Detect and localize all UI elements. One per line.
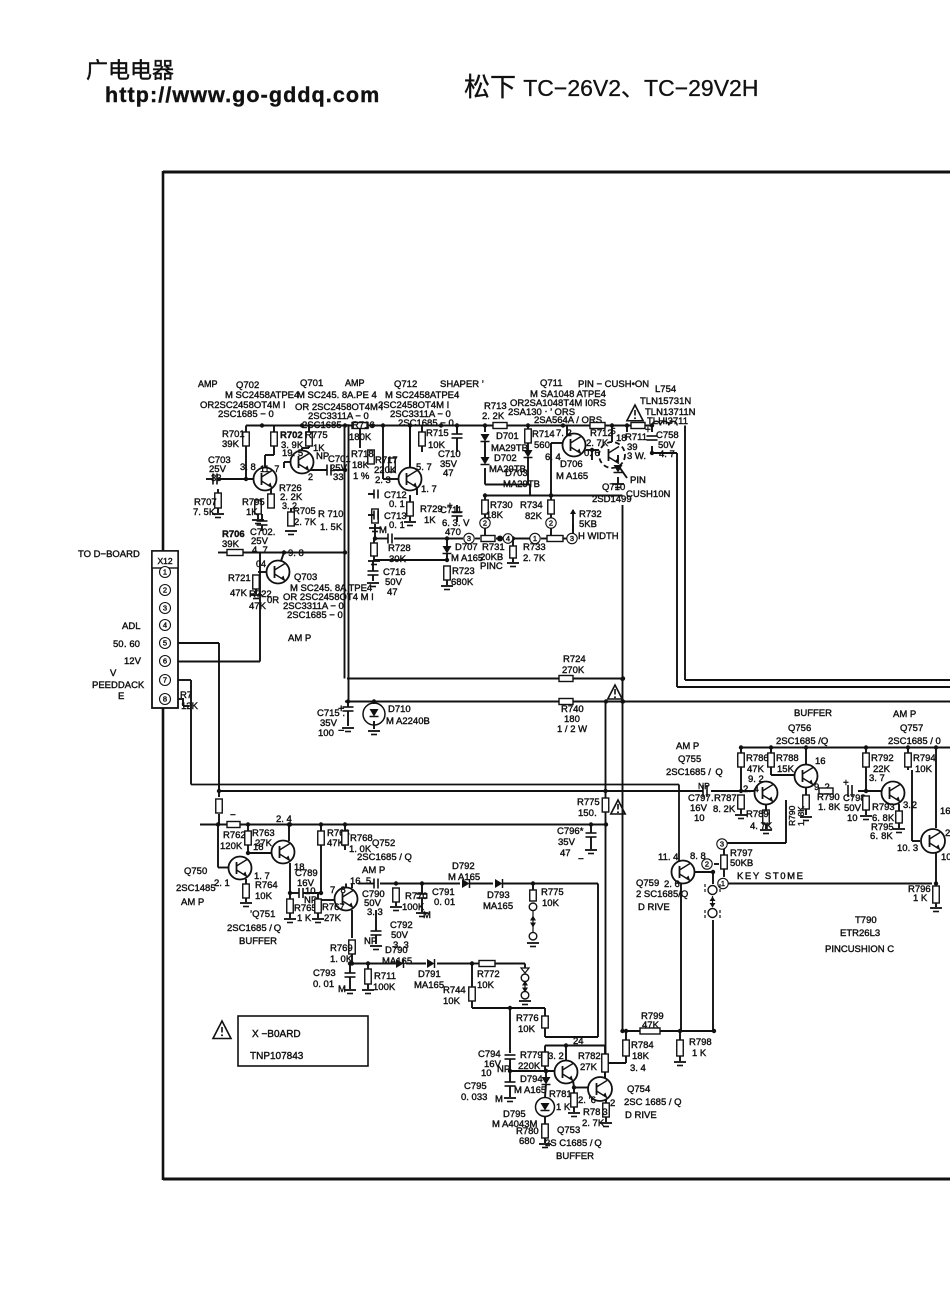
label R712 <box>586 423 613 450</box>
transistor Q756 <box>795 765 818 788</box>
svg-text:11. 7: 11. 7 <box>260 464 279 474</box>
label Q702 types <box>200 390 299 420</box>
resistor R795a <box>242 497 265 524</box>
svg-text:39K: 39K <box>222 539 240 550</box>
label 50 60 <box>113 639 140 650</box>
svg-text:10: 10 <box>847 813 858 824</box>
wire q751 collector <box>287 822 291 841</box>
resistor R706 <box>222 529 245 556</box>
wire x12 pin8 stub <box>178 699 189 706</box>
resistor R731 <box>480 536 505 573</box>
resistor R786 <box>738 748 769 794</box>
svg-text:12K: 12K <box>181 701 199 712</box>
svg-text:ETR26L3: ETR26L3 <box>840 928 880 939</box>
label 7.2 <box>556 428 572 439</box>
resistor R707 <box>193 489 224 518</box>
resistor R775b <box>305 430 328 454</box>
svg-text:3: 3 <box>720 840 724 849</box>
wire q752 emitter <box>351 910 353 938</box>
transistor Q712 <box>399 468 422 491</box>
svg-text:Q756: Q756 <box>788 723 811 734</box>
transistor Q757 <box>882 782 905 805</box>
svg-text:2. 2K: 2. 2K <box>482 411 505 422</box>
svg-text:5: 5 <box>611 426 616 436</box>
svg-text:M A165: M A165 <box>451 553 483 564</box>
svg-text:C793: C793 <box>313 968 336 979</box>
wire q711 base drop <box>551 443 563 496</box>
transistor Q754 <box>588 1077 612 1101</box>
svg-text:1. 5K: 1. 5K <box>320 522 343 533</box>
svg-text:Q757: Q757 <box>900 723 923 734</box>
svg-text:10K: 10K <box>477 980 495 991</box>
resistor R796 <box>908 884 942 912</box>
wire top rail drops <box>246 423 654 467</box>
svg-text:150․: 150․ <box>578 808 597 819</box>
svg-text:04: 04 <box>256 559 266 569</box>
resistor R711c <box>625 423 647 463</box>
svg-text:1 K: 1 K <box>913 893 928 904</box>
label Q752 types <box>357 838 412 876</box>
svg-text:47: 47 <box>443 468 454 479</box>
svg-text:10: 10 <box>481 1068 492 1079</box>
svg-text:1 K: 1 K <box>556 1102 571 1113</box>
resistor R781 <box>549 1089 580 1117</box>
svg-text:D R﻿IVE: D R﻿IVE <box>625 1110 657 1121</box>
circled 3 key <box>717 839 727 849</box>
wire q703 collector <box>281 553 284 562</box>
label Q703 types <box>283 572 374 621</box>
svg-text:D702: D702 <box>494 453 517 464</box>
resistor R714 <box>525 429 555 451</box>
wire q711 q710 link <box>586 448 599 452</box>
svg-text:C795: C795 <box>464 1081 487 1092</box>
wire q701 emitter cap <box>310 468 347 472</box>
svg-text:24: 24 <box>573 1036 584 1047</box>
resistor R711b <box>362 964 396 994</box>
diode D790 <box>396 959 404 968</box>
svg-text:R776: R776 <box>516 1013 539 1024</box>
svg-text:2SC1485: 2SC1485 <box>176 883 216 894</box>
wire q752 base <box>321 899 334 901</box>
svg-text:TNP﻿107843: TNP﻿107843 <box>250 1051 304 1062</box>
wire m row <box>373 524 463 541</box>
wire C feedback <box>191 785 679 863</box>
svg-text:180K: 180K <box>349 432 372 443</box>
svg-text:1. 8K: 1. 8K <box>818 802 841 813</box>
label T790 <box>825 915 894 955</box>
svg-text:4: 4 <box>506 534 510 543</box>
wire q702 collector <box>265 446 274 468</box>
label AMP Q702 <box>198 379 259 391</box>
svg-text:R705: R705 <box>293 506 316 517</box>
resistor R772 <box>477 961 500 992</box>
label Q753 types <box>545 1125 602 1162</box>
resistor R794 <box>905 748 936 776</box>
resistor R730 <box>482 500 513 521</box>
svg-text:SHAPER ’: SHAPER ’ <box>440 379 484 390</box>
label 04 <box>256 559 266 569</box>
resistor R733 <box>507 542 546 567</box>
label KEY STONE <box>737 871 805 882</box>
svg-text:R768: R768 <box>350 833 373 844</box>
svg-text:M: M <box>495 1094 503 1105</box>
resistor R723 <box>441 566 475 590</box>
transistor Q752 <box>335 888 358 911</box>
label 16.5 <box>350 876 371 887</box>
X-BOARD title box <box>238 1016 368 1066</box>
circled 1 <box>530 533 540 543</box>
wire q756 collector <box>805 748 807 766</box>
svg-text:10K: 10K <box>542 898 560 909</box>
wire key net1 <box>727 881 938 885</box>
label 12V <box>124 656 142 667</box>
svg-text:1 K: 1 K <box>297 913 312 924</box>
svg-text:270K: 270K <box>562 665 585 676</box>
svg-text:AM P: AM P <box>181 897 204 908</box>
connector X12 <box>152 551 178 708</box>
svg-text:3 W.: 3 W. <box>627 451 646 462</box>
svg-text:2: 2 <box>163 586 167 595</box>
wire H diode row <box>394 881 598 885</box>
resistor R783 <box>582 1103 612 1129</box>
svg-text:1 K: 1 K <box>692 1048 707 1059</box>
resistor R770 <box>390 888 431 921</box>
diode D710 circled <box>363 699 430 734</box>
svg-text:+: + <box>645 425 651 436</box>
svg-text:R786: R786 <box>746 753 769 764</box>
svg-text:R784: R784 <box>631 1040 654 1051</box>
svg-text:R775: R775 <box>305 430 328 441</box>
svg-text:5KB: 5KB <box>579 519 597 530</box>
svg-text:2SC1685 /Q: 2SC1685 /Q <box>776 736 828 747</box>
svg-text:+: + <box>843 778 849 789</box>
wire q753 emitter <box>573 1080 574 1093</box>
wire c794 chain <box>508 1008 512 1082</box>
capacitor C713 <box>368 511 407 532</box>
resistor R797 <box>721 848 754 877</box>
label SHAPER <box>440 379 484 390</box>
circled 2 right <box>546 514 556 539</box>
svg-text:560: 560 <box>534 440 550 451</box>
capacitor C793 <box>313 961 356 995</box>
capacitor C702 <box>250 514 275 556</box>
svg-text:2SC1685 − 0: 2SC1685 − 0 <box>218 409 274 420</box>
svg-text:2. ’6: 2. ’6 <box>578 1095 596 1106</box>
svg-text:50KB: 50KB <box>730 858 753 869</box>
svg-text:X12: X12 <box>157 556 172 566</box>
wire q757 base <box>858 789 882 793</box>
svg-text:AM P: AM P <box>288 633 311 644</box>
svg-text:R782: R782 <box>578 1051 601 1062</box>
capacitor C703 <box>206 455 231 485</box>
svg-text:6. 4: 6. 4 <box>545 452 561 463</box>
wire r733 gnd drop <box>512 539 514 563</box>
label Q759 <box>636 878 688 913</box>
capacitor C792 <box>364 910 413 951</box>
wire v3 long vertical <box>620 505 624 1033</box>
label 7.8 <box>330 885 346 896</box>
capacitor C795 <box>461 1081 516 1105</box>
svg-text:3. 2: 3. 2 <box>903 800 917 811</box>
svg-text:0. 1: 0. 1 <box>389 520 405 531</box>
svg-text:0. 01: 0. 01 <box>313 979 334 990</box>
svg-text:18K: 18K <box>352 460 370 471</box>
diode D701 <box>481 431 528 454</box>
svg-text:2SC1685 / Q: 2SC1685 / Q <box>357 852 412 863</box>
wire x12 pin5 out <box>178 643 221 793</box>
resistor R793 <box>860 796 895 824</box>
label BUFFER q756 <box>794 708 832 719</box>
svg-text:http://www.go-gddq.com: http://www.go-gddq.com <box>105 83 380 107</box>
wire q701 collector <box>302 446 309 451</box>
label Q712 types <box>378 390 459 429</box>
wire keystone riser <box>726 800 786 843</box>
svg-text:100K: 100K <box>373 982 396 993</box>
svg-text:R734: R734 <box>520 500 543 511</box>
svg-text:2. 6: 2. 6 <box>664 879 680 890</box>
capacitor C791 <box>416 881 455 916</box>
svg-text:16: 16 <box>815 756 826 767</box>
svg-text:1K: 1K <box>424 515 436 526</box>
wire bus outer <box>677 453 950 687</box>
label NP c789 <box>304 895 317 906</box>
wire q756 base link <box>771 774 795 776</box>
svg-text:TLN15731N: TLN15731N <box>640 396 691 407</box>
capacitor C790 <box>362 879 385 919</box>
schematic border frame <box>163 171 950 1180</box>
label L754 types <box>640 384 696 427</box>
wire bus corner right vertical inner <box>685 426 950 681</box>
svg-text:47K: 47K <box>249 601 267 612</box>
label 1.7 <box>254 871 270 882</box>
wire d702 bottom row <box>485 468 530 496</box>
svg-text:AMP: AMP <box>198 379 218 389</box>
svg-text:10K: 10K <box>915 764 933 775</box>
capacitor C716 <box>367 560 447 598</box>
svg-text:18: 18 <box>253 842 264 853</box>
svg-text:D793: D793 <box>487 890 510 901</box>
svg-text:PEEDDACK: PEEDDACK <box>92 680 145 691</box>
svg-text:BUFFER: BUFFER <box>239 936 277 947</box>
svg-text:’Q751: ’Q751 <box>250 909 275 920</box>
capacitor M cap <box>388 534 392 544</box>
resistor R779 <box>518 1046 548 1073</box>
svg-text:Q750: Q750 <box>184 866 207 877</box>
resistor R789 <box>746 804 773 834</box>
resistor R713 <box>482 401 507 429</box>
resistor R721 <box>228 573 262 599</box>
svg-text:8: 8 <box>163 695 167 704</box>
svg-text:0. 01: 0. 01 <box>434 897 455 908</box>
svg-text:C796*: C796* <box>557 826 584 837</box>
wire keystone bottom <box>623 1029 717 1033</box>
svg-text:M A﻿2240B: M A﻿2240B <box>386 716 430 727</box>
svg-text:39K: 39K <box>222 439 240 450</box>
resistor R740 <box>557 699 587 736</box>
svg-text:2SC1685 / Q: 2SC1685 / Q <box>227 923 281 934</box>
svg-text:7. 5K: 7. 5K <box>193 507 216 518</box>
svg-text:ADL: ADL <box>122 621 140 632</box>
resistor R701 <box>222 429 249 450</box>
label D790 <box>382 945 412 967</box>
wire r730 drop <box>484 496 486 501</box>
label D792 <box>448 861 480 883</box>
svg-text:5: 5 <box>163 639 167 648</box>
warning triangle r775 <box>611 800 625 814</box>
wire q753 base <box>510 1069 555 1073</box>
svg-text:2: 2 <box>549 519 553 528</box>
label D793 <box>483 890 513 912</box>
svg-text:R789: R789 <box>746 809 769 820</box>
svg-text:3: 3 <box>163 604 167 613</box>
svg-text:6․ 8K: 6․ 8K <box>870 831 893 842</box>
diode D702 <box>481 441 526 475</box>
header url <box>105 83 380 107</box>
resistor R775d <box>577 797 609 819</box>
label ADL <box>122 621 140 632</box>
wire x12 pin7 out <box>178 680 191 785</box>
label 18 b <box>294 862 305 873</box>
svg-text:10K: 10K <box>518 1024 536 1035</box>
label 2.6 q759 <box>664 879 680 890</box>
circled 1 key <box>718 878 728 888</box>
header site name 广电电器 <box>86 58 174 83</box>
transistor Q702 <box>254 468 277 491</box>
label 3.2 b <box>548 1051 564 1062</box>
wire v 598 loop <box>597 884 599 1038</box>
resistor R702 <box>271 430 304 459</box>
svg-text:R77﻿5: R77﻿5 <box>541 887 564 898</box>
svg-text:6: 6 <box>163 657 167 666</box>
svg-text:9. 8: 9. 8 <box>288 548 304 559</box>
inductor L754 <box>652 421 677 425</box>
wire left bus pair vertical <box>345 426 349 702</box>
wire q754 emitter <box>605 1100 607 1103</box>
svg-text:R721: R721 <box>228 573 251 584</box>
capacitor C797 <box>688 781 714 824</box>
svg-text:R787: R787 <box>714 793 737 804</box>
svg-text:2S C﻿1685 / Q: 2S C﻿1685 / Q <box>545 1138 602 1149</box>
wire r730 r734 rail <box>483 493 623 497</box>
label Q755 <box>666 754 723 778</box>
svg-text:0. 6: 0. 6 <box>584 448 600 459</box>
svg-text:P﻿I﻿NC: P﻿I﻿NC <box>480 561 503 572</box>
label M <box>379 525 387 536</box>
pot R732 <box>570 509 619 542</box>
svg-text:R764: R764 <box>255 880 278 891</box>
label Q757 <box>888 723 941 747</box>
svg-text:1: 1 <box>533 534 537 543</box>
label R7 12K <box>180 690 199 712</box>
svg-text:R770: R770 <box>405 891 428 902</box>
svg-text:AM P: AM P <box>362 865 385 876</box>
label 18 a <box>253 842 264 853</box>
svg-text:2. ﻿1: 2. ﻿1 <box>214 878 230 889</box>
wire q712 vert <box>409 426 411 468</box>
transistor Q755 <box>755 782 778 805</box>
svg-text:1. 7: 1. 7 <box>421 484 437 495</box>
svg-text:16: 16 <box>940 806 950 817</box>
wire top supply rail <box>246 425 652 427</box>
svg-text:27K: 27K <box>580 1062 598 1073</box>
svg-text:Q754: Q754 <box>627 1084 650 1095</box>
label 8.8 <box>690 851 706 862</box>
resistor R7 <box>216 799 223 813</box>
svg-text:X −B0ARD: X −B0ARD <box>252 1029 301 1040</box>
capacitor C789 <box>290 868 323 898</box>
svg-text:R724: R724 <box>563 654 586 665</box>
capacitor C712 <box>368 490 407 511</box>
svg-text:7: 7 <box>163 676 167 685</box>
capacitor C701 <box>327 465 331 476</box>
svg-text:50․ 60: 50․ 60 <box>113 639 140 650</box>
label 9.2 a <box>748 774 764 785</box>
svg-text:Q712: Q712 <box>394 379 417 390</box>
svg-text:BUFFER: BUFFER <box>794 708 832 719</box>
svg-text:1K: 1K <box>246 507 258 518</box>
svg-text:33: 33 <box>333 472 344 483</box>
svg-text:3. 3: 3. 3 <box>367 907 383 918</box>
svg-text:P﻿I﻿N: P﻿I﻿N <box>630 475 646 486</box>
resistor R775c <box>530 884 564 910</box>
svg-text:10K: 10K <box>443 996 461 1007</box>
svg-text:680K: 680K <box>451 577 474 588</box>
svg-text:NP: NP <box>497 1064 510 1075</box>
wire H left <box>358 883 426 885</box>
label 3.2 <box>282 501 297 511</box>
warning triangle xboard <box>213 1021 231 1039</box>
diode D795 circled <box>492 1084 555 1130</box>
label Q750 2SC1485 AMP <box>176 866 216 908</box>
svg-text:−: − <box>230 810 236 821</box>
svg-text:1. 8K: 1. 8K <box>796 806 806 826</box>
svg-text:V: V <box>110 668 117 679</box>
svg-text:2SC1685 / Q: 2SC1685 / Q <box>666 767 723 778</box>
resistor R790 <box>817 788 841 813</box>
svg-text:10. 3: 10. 3 <box>897 843 918 854</box>
svg-text:R728: R728 <box>388 543 411 554</box>
svg-text:2: 2 <box>945 828 950 839</box>
svg-text:18K: 18K <box>632 1051 650 1062</box>
svg-text:Q711: Q711 <box>540 378 563 389</box>
resistor R765 <box>284 893 317 924</box>
svg-text:1 %: 1 % <box>353 471 370 482</box>
resistor R716 <box>349 420 375 443</box>
label Q711 PIN-CUSHION <box>540 378 649 390</box>
resistor R762 <box>220 810 246 852</box>
resistor R718 <box>351 449 374 482</box>
label NP C701 <box>316 451 351 483</box>
svg-text:2 SC1685/Q: 2 SC1685/Q <box>636 889 688 900</box>
wire r784 node <box>605 1031 626 1063</box>
label 11.4 <box>658 852 678 863</box>
svg-text:M A165: M A165 <box>556 471 588 482</box>
wire r7 branch <box>218 814 220 825</box>
wire q756 emitter <box>800 787 812 821</box>
wire hwidth drop <box>572 524 574 539</box>
resistor R767 <box>312 893 345 924</box>
svg-text:100: 100 <box>318 728 334 739</box>
svg-text:2: 2 <box>483 519 487 528</box>
wire q703 base <box>258 571 266 573</box>
svg-text:47K: 47K <box>230 588 248 599</box>
svg-text:R798: R798 <box>689 1037 712 1048</box>
wire v260 <box>259 553 261 662</box>
wire v 605 <box>603 702 607 1066</box>
svg-text:D701: D701 <box>496 431 519 442</box>
label 2 right <box>945 828 950 839</box>
svg-text:D707: D707 <box>455 542 478 553</box>
